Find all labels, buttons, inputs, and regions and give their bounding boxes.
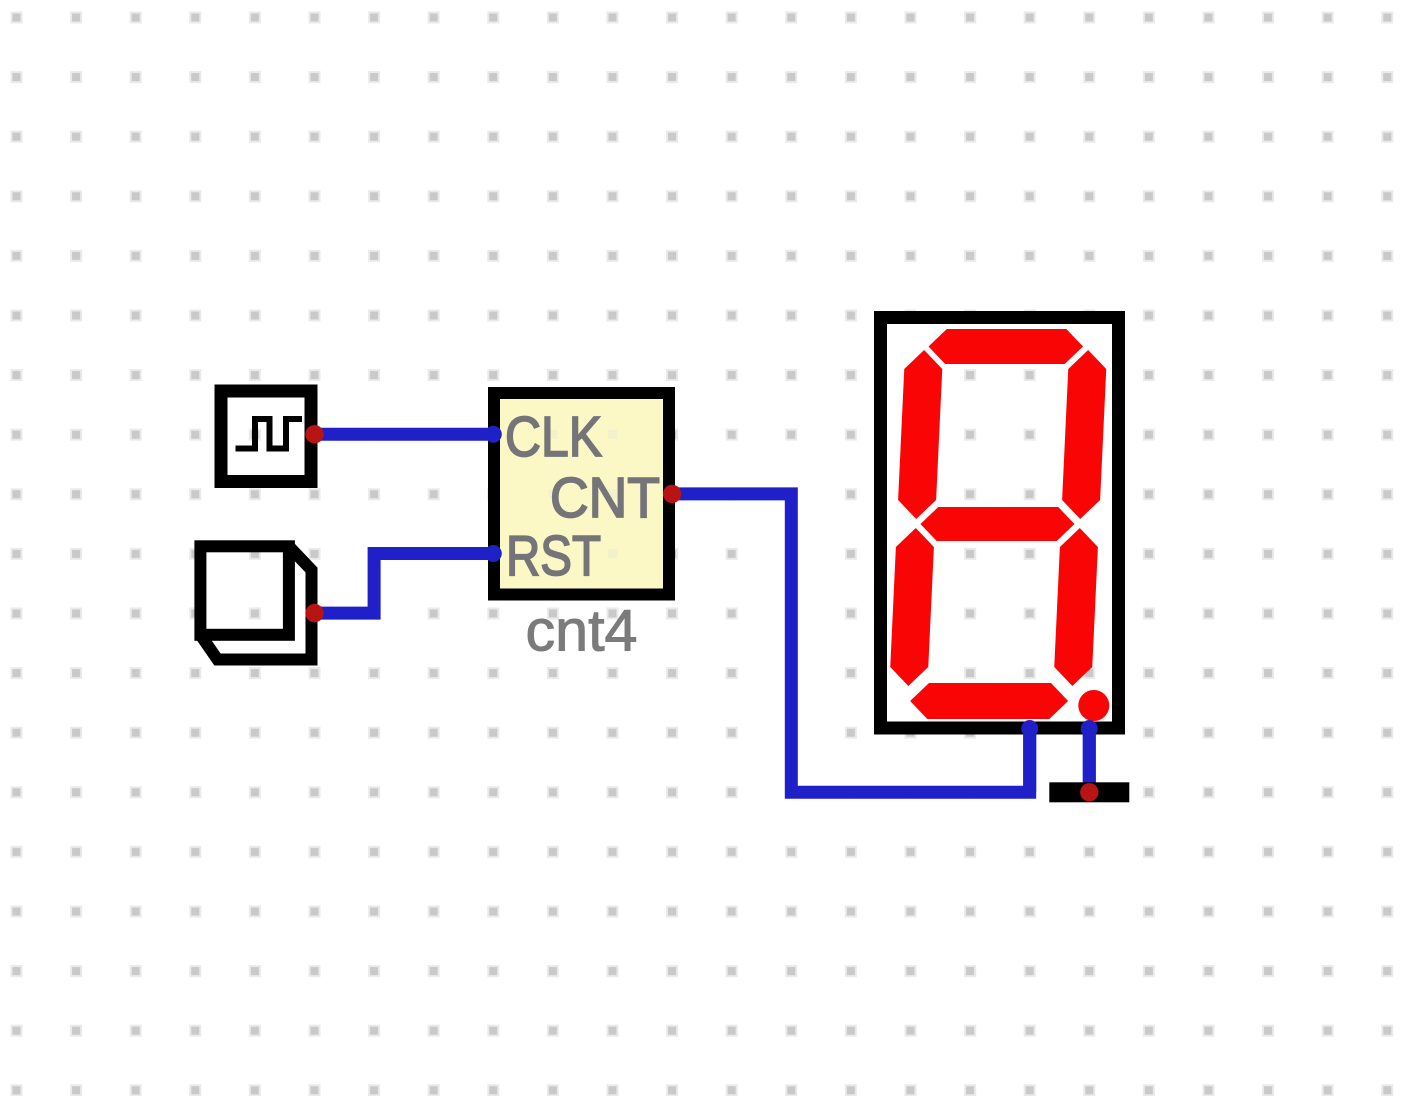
- segment g: [920, 507, 1076, 541]
- svg-text:CLK: CLK: [505, 405, 602, 469]
- decimal point: [1078, 690, 1109, 721]
- seven segment display frame: [881, 318, 1119, 729]
- pin label CLK: [505, 405, 602, 469]
- ground symbol: [1049, 782, 1129, 802]
- seven segment digit 8: [888, 329, 1108, 719]
- button output pin dot: [305, 604, 323, 622]
- svg-text:cnt4: cnt4: [526, 599, 638, 664]
- segment c: [1053, 528, 1098, 686]
- display pin 2 stub: [1081, 720, 1098, 792]
- segment e: [889, 528, 934, 686]
- clock output pin dot: [305, 425, 323, 443]
- wire display pin 2 to ground: [1083, 730, 1096, 792]
- svg-text:CNT: CNT: [550, 466, 660, 530]
- wire button output to RST pin: [315, 554, 494, 614]
- ground junction dot: [1080, 783, 1098, 801]
- wire CNT output to display pin: [672, 494, 1030, 792]
- segment a: [928, 329, 1084, 364]
- svg-text:RST: RST: [506, 524, 601, 588]
- CLK input pin dot: [485, 426, 502, 443]
- segment b: [1061, 350, 1107, 519]
- CNT output pin dot: [663, 485, 681, 503]
- pin label CNT: [550, 466, 660, 530]
- segment d: [909, 683, 1069, 719]
- push button: [200, 546, 311, 659]
- segment f: [897, 350, 943, 519]
- clock source: [221, 391, 311, 482]
- component label cnt4: [526, 599, 638, 664]
- display pin 1 stub: [1021, 720, 1038, 792]
- RST input pin dot: [485, 545, 502, 562]
- pin label RST: [506, 524, 601, 588]
- wire clock output to CLK pin: [315, 428, 494, 441]
- counter cnt4 body: [494, 393, 669, 595]
